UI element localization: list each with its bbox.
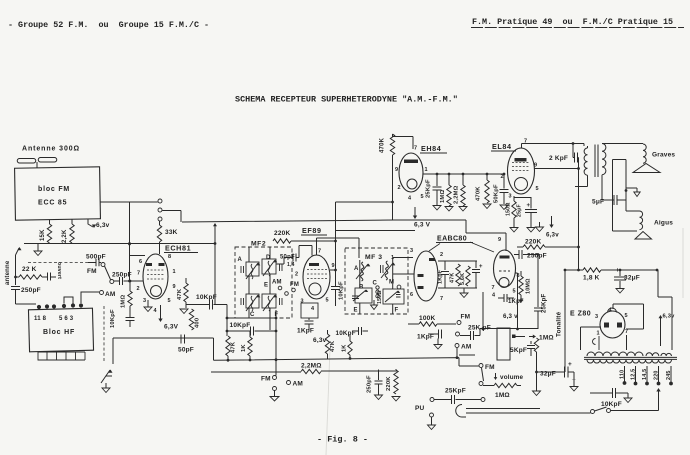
resistor 220K screen xyxy=(273,239,291,243)
svg-text:8: 8 xyxy=(517,273,520,279)
svg-text:2: 2 xyxy=(137,286,140,292)
svg-text:FM: FM xyxy=(87,268,97,275)
svg-text:11 8: 11 8 xyxy=(34,316,47,322)
wire avc upper xyxy=(227,317,276,319)
svg-text:PU: PU xyxy=(415,405,425,412)
svg-text:6: 6 xyxy=(410,292,413,298)
svg-text:9: 9 xyxy=(395,167,398,173)
svg-text:3: 3 xyxy=(143,298,146,304)
wire tweeter vertical xyxy=(613,160,638,232)
svg-text:220: 220 xyxy=(654,370,660,380)
resistor 22K xyxy=(19,275,42,279)
svg-text:6,3V: 6,3V xyxy=(164,324,179,331)
svg-text:10MΩ: 10MΩ xyxy=(526,278,532,294)
capacitor 50pF mf2 xyxy=(293,254,296,262)
wire MF2 to EF89 grid xyxy=(276,258,293,265)
mains tap 245 xyxy=(670,366,672,382)
wire HT right vertical xyxy=(658,270,672,350)
capacitor 250pF antenna series xyxy=(15,255,17,285)
svg-text:C: C xyxy=(250,312,255,318)
capacitor 25KpF em84 xyxy=(436,174,438,186)
resistor 2,2K xyxy=(70,224,74,243)
tube EL84 anode xyxy=(515,158,527,162)
svg-text:1MΩ: 1MΩ xyxy=(495,392,510,399)
svg-text:6,3v: 6,3v xyxy=(546,232,559,239)
capacitor 5KpF xyxy=(530,341,532,344)
svg-text:220K: 220K xyxy=(386,376,392,391)
svg-text:1K: 1K xyxy=(342,344,348,352)
ground 250pF det xyxy=(375,395,383,400)
svg-text:1: 1 xyxy=(597,331,600,337)
bloc FM box xyxy=(15,167,101,220)
svg-text:3: 3 xyxy=(410,248,413,254)
svg-text:1KpF: 1KpF xyxy=(438,269,444,284)
capacitor 5uF xyxy=(602,199,614,201)
MF3 shield box dashed xyxy=(345,248,408,314)
svg-text:5μF: 5μF xyxy=(592,199,604,206)
svg-text:10KpF: 10KpF xyxy=(339,281,345,300)
switch link dashed xyxy=(28,262,96,264)
tube EL84 envelope xyxy=(508,148,535,194)
ground bloc FM xyxy=(37,244,39,251)
junction anode rail xyxy=(128,242,131,245)
resistor 470K af xyxy=(485,180,489,203)
svg-text:F: F xyxy=(395,308,399,314)
svg-text:400: 400 xyxy=(195,318,201,328)
switch contact FM det2 xyxy=(456,332,460,336)
wire EL84 screen xyxy=(535,168,579,170)
mains switch xyxy=(591,410,595,414)
ground 1KpF af xyxy=(434,345,442,350)
svg-text:SCHEMA RECEPTEUR SUPERHETERODY: SCHEMA RECEPTEUR SUPERHETERODYNE "A.M.-F… xyxy=(235,95,458,105)
wire volume top xyxy=(480,328,538,330)
svg-text:32μF: 32μF xyxy=(624,275,640,282)
svg-text:10KpF: 10KpF xyxy=(110,309,116,328)
svg-text:1: 1 xyxy=(425,167,428,173)
svg-text:FM: FM xyxy=(485,364,495,371)
svg-text:9: 9 xyxy=(332,263,335,269)
svg-text:250pF: 250pF xyxy=(527,253,547,260)
resistor 100K xyxy=(408,323,419,325)
tube EABC80 diode envelope xyxy=(414,251,438,301)
MF2 top coil squiggles xyxy=(251,264,253,279)
wire screen feed vertical xyxy=(336,202,393,241)
switch contact top xyxy=(158,199,162,203)
svg-text:D: D xyxy=(266,255,271,261)
capacitor 10KpF mains xyxy=(590,392,612,394)
svg-text:6,3v: 6,3v xyxy=(663,314,676,320)
svg-text:6,3v: 6,3v xyxy=(313,337,327,344)
svg-text:1KpF: 1KpF xyxy=(417,334,434,341)
potentiometer volume 1Mohm xyxy=(483,385,494,387)
wire HT bus upper xyxy=(182,220,506,251)
ground EL84 third xyxy=(539,222,541,227)
svg-text:1,8 K: 1,8 K xyxy=(583,275,600,282)
svg-text:50pF: 50pF xyxy=(280,255,295,261)
capacitor antenna bypass xyxy=(42,276,47,278)
svg-text:2 KpF: 2 KpF xyxy=(549,155,568,162)
tube EZ80 envelope xyxy=(600,311,625,338)
svg-text:A: A xyxy=(238,257,243,263)
MF3 right cap xyxy=(396,295,401,298)
switch contact AM mid xyxy=(278,286,282,290)
svg-text:9: 9 xyxy=(173,284,176,290)
svg-text:E: E xyxy=(264,283,268,289)
svg-text:AM: AM xyxy=(105,291,116,298)
svg-text:FM: FM xyxy=(290,282,299,288)
svg-text:_: _ xyxy=(571,374,576,381)
svg-text:3: 3 xyxy=(509,194,512,200)
wire EH84 left xyxy=(392,155,394,220)
svg-text:245: 245 xyxy=(666,370,672,380)
svg-text:50pF: 50pF xyxy=(178,347,194,354)
wire EL84 plate xyxy=(522,144,585,149)
svg-text:25KpF: 25KpF xyxy=(426,179,432,198)
capacitor 2KpF xyxy=(573,144,574,158)
speaker Graves coil xyxy=(643,144,646,163)
svg-text:ECC 85: ECC 85 xyxy=(38,200,67,207)
svg-text:10KpF: 10KpF xyxy=(230,322,251,329)
svg-text:150Ω: 150Ω xyxy=(506,202,512,216)
ground 470K af xyxy=(483,204,491,209)
svg-text:10KpF: 10KpF xyxy=(336,330,356,337)
wire ground bus B xyxy=(211,371,397,372)
svg-text:5 6 3: 5 6 3 xyxy=(59,316,74,322)
svg-text:7: 7 xyxy=(625,329,628,335)
svg-text:250pF: 250pF xyxy=(21,287,41,294)
capacitor 500pF xyxy=(88,262,96,264)
power transformer secondary LT xyxy=(646,353,659,356)
ground 25KpF em84 xyxy=(433,206,441,211)
MF3 contact circle xyxy=(397,285,401,289)
capacitor 1KpF det xyxy=(444,261,446,270)
svg-text:7: 7 xyxy=(440,296,443,302)
capacitor 250pF fb xyxy=(514,254,519,256)
svg-text:ouvert: ouvert xyxy=(56,262,62,279)
wire if right vertical xyxy=(226,305,228,337)
svg-text:1,4: 1,4 xyxy=(287,262,295,268)
MF2 top slug arrows xyxy=(246,263,258,279)
svg-text:MF2: MF2 xyxy=(251,241,266,248)
svg-text:9: 9 xyxy=(534,163,537,169)
wire switch to bus xyxy=(162,211,181,223)
MF3 left cap xyxy=(352,296,359,299)
Bloc HF terminals xyxy=(37,305,41,309)
svg-text:25K pF: 25K pF xyxy=(468,325,491,332)
resistor 1Mohm grid xyxy=(128,291,132,306)
tube EABC80 triode grid xyxy=(499,270,510,272)
tube EF89 cathode xyxy=(309,283,321,295)
svg-text:50KpF: 50KpF xyxy=(494,184,500,203)
power transformer secondary LT2 xyxy=(661,353,671,356)
svg-text:47K: 47K xyxy=(330,340,336,352)
wire heater bloc FM xyxy=(88,220,93,228)
resistor 10Mohm xyxy=(519,276,523,295)
tube ECH81 anodes xyxy=(146,263,152,266)
svg-text:470K: 470K xyxy=(380,137,386,153)
svg-text:110: 110 xyxy=(620,370,626,379)
svg-text:14,5: 14,5 xyxy=(642,369,648,380)
svg-text:10KpF: 10KpF xyxy=(196,294,217,301)
capacitor padder xyxy=(126,318,135,321)
wire det cathode bottom xyxy=(438,287,477,289)
MF3 coil primary xyxy=(361,262,364,281)
ground 25uF xyxy=(527,228,535,233)
EF89 cathode box xyxy=(301,303,318,318)
switch contact mid xyxy=(158,208,162,212)
switch FM bottom xyxy=(273,376,277,380)
svg-text:6: 6 xyxy=(139,259,142,265)
resistor 33K xyxy=(157,225,161,242)
switch contact PU xyxy=(430,413,434,417)
svg-text:2: 2 xyxy=(501,174,504,180)
svg-text:EH84: EH84 xyxy=(421,144,441,153)
tube EZ80 plates xyxy=(604,323,609,328)
svg-text:2,2MΩ: 2,2MΩ xyxy=(301,363,322,370)
wire bloc HF pin stub xyxy=(64,297,73,304)
capacitor 50pF osc xyxy=(181,335,185,344)
svg-text:33K: 33K xyxy=(165,229,178,236)
svg-text:25KpF: 25KpF xyxy=(445,388,466,395)
MF3 vertical left xyxy=(359,260,361,314)
svg-text:6,3 V: 6,3 V xyxy=(414,222,431,229)
svg-text:FM: FM xyxy=(461,314,471,321)
svg-text:2,2K: 2,2K xyxy=(62,229,68,243)
svg-text:5: 5 xyxy=(513,289,516,295)
output transformer core xyxy=(595,145,598,178)
capacitor 1KpF af xyxy=(428,333,438,335)
wire EZ80 pin7 down xyxy=(626,335,628,350)
ground PU xyxy=(431,417,433,425)
capacitor 32uF psu xyxy=(619,270,621,276)
potentiometer tone 1Mohm xyxy=(533,335,536,339)
resistor 5,6K det xyxy=(466,266,470,286)
capacitor 1KpF ef89 xyxy=(308,318,310,320)
svg-text:5: 5 xyxy=(168,298,171,304)
tube EABC80 diode plates xyxy=(429,258,435,261)
svg-text:M: M xyxy=(389,280,394,286)
svg-text:250pF: 250pF xyxy=(367,375,373,393)
svg-text:12,5: 12,5 xyxy=(631,369,637,380)
wire bloc FM output xyxy=(100,202,145,281)
wire heater ECH81 xyxy=(160,305,162,320)
switch contact AM xyxy=(100,291,104,295)
svg-text:47K: 47K xyxy=(231,341,237,353)
svg-text:volume: volume xyxy=(500,374,524,381)
tube EABC80 triode envelope xyxy=(494,250,516,287)
svg-text:22 K: 22 K xyxy=(22,266,37,273)
wire MF3 to diode top xyxy=(393,257,413,259)
junction bus dots xyxy=(227,359,230,362)
svg-text:1KpF: 1KpF xyxy=(508,299,524,305)
svg-text:6,3 v: 6,3 v xyxy=(503,313,518,320)
svg-text:7: 7 xyxy=(137,271,140,277)
wire heater EH84 xyxy=(414,207,416,217)
MF2 bottom slug arrows xyxy=(246,295,258,311)
wire det cathode top xyxy=(438,260,477,262)
svg-text:EL84: EL84 xyxy=(492,142,512,151)
tube EL84 cathode xyxy=(515,178,528,191)
trimmer arrow xyxy=(101,370,110,383)
speaker Aigus cone xyxy=(635,232,652,240)
svg-text:2: 2 xyxy=(398,185,401,191)
tube EF89 envelope xyxy=(303,255,330,299)
svg-text:bloc FM: bloc FM xyxy=(38,186,70,193)
svg-text:AM: AM xyxy=(293,381,304,388)
svg-text:2,2MΩ: 2,2MΩ xyxy=(454,185,460,204)
capacitor 10KpF if xyxy=(186,304,209,306)
antenna dipole xyxy=(17,157,57,163)
resistor 47K agc xyxy=(226,336,230,356)
MF2 bottom caps xyxy=(241,298,282,305)
svg-text:1MΩ: 1MΩ xyxy=(539,335,554,342)
switch contact AM det xyxy=(455,344,459,348)
svg-text:E Z80: E Z80 xyxy=(570,311,591,318)
tube EH84 envelope xyxy=(399,153,423,192)
resistor 220K anode xyxy=(517,246,523,248)
power transformer core xyxy=(584,357,677,359)
ground 47K osc xyxy=(180,309,188,314)
wire bloc HF right xyxy=(113,338,214,364)
wire AVC vertical xyxy=(275,310,277,376)
svg-text:15K: 15K xyxy=(40,229,46,241)
tube ECH81 envelope xyxy=(143,254,168,299)
wire to switch contacts xyxy=(130,201,158,203)
ground Graves xyxy=(626,188,637,192)
svg-text:Graves: Graves xyxy=(652,152,675,159)
capacitor 250pF det xyxy=(378,370,380,381)
svg-text:7: 7 xyxy=(414,146,417,152)
ground 1Mohm em84 xyxy=(445,207,453,212)
MF2 shield box dashed xyxy=(235,247,292,318)
svg-text:AM: AM xyxy=(272,280,282,286)
resistor 220K det xyxy=(394,370,398,394)
antenna input arrow xyxy=(16,248,20,255)
svg-text:5: 5 xyxy=(536,186,539,192)
svg-text:150Ω: 150Ω xyxy=(377,290,383,304)
mains tap 145 xyxy=(646,366,648,382)
wire EH84 grid line xyxy=(423,173,505,175)
capacitor 25KpF pu xyxy=(430,398,434,402)
svg-text:5: 5 xyxy=(625,313,628,319)
svg-text:AM: AM xyxy=(461,344,472,351)
wire triode plate down xyxy=(516,273,518,329)
Bloc HF box xyxy=(28,308,93,352)
capacitor 10KpF avc xyxy=(227,330,250,332)
svg-text:1K: 1K xyxy=(241,344,247,352)
tube ECH81 grids xyxy=(147,270,164,279)
ground 50KpF xyxy=(500,205,508,210)
switch contact FM mid xyxy=(292,288,296,292)
svg-text:2: 2 xyxy=(295,272,298,278)
wire EZ80 plate bracket xyxy=(613,304,644,329)
capacitor 10KpF af2 xyxy=(352,330,358,332)
switch contact FM det xyxy=(457,321,461,325)
capacitor 25KpF det xyxy=(460,335,470,337)
MF3 vertical right xyxy=(392,258,394,314)
resistor 470K em84 xyxy=(390,134,394,155)
switch AM bottom xyxy=(287,381,291,385)
svg-text:1: 1 xyxy=(173,269,176,275)
svg-text:C: C xyxy=(373,281,378,287)
resistor 15K xyxy=(47,224,51,243)
resistor 2,2Mohm em84 xyxy=(461,185,465,206)
capacitor 32uF af xyxy=(537,371,565,373)
svg-text:1MΩ: 1MΩ xyxy=(121,295,127,308)
resistor 47K det xyxy=(456,264,460,286)
tube EABC80 triode anode xyxy=(500,256,510,259)
capacitor 1KpF triode xyxy=(498,297,504,299)
svg-text:6,3v: 6,3v xyxy=(96,222,110,229)
switch FM af xyxy=(479,364,483,368)
svg-text:+: + xyxy=(479,264,483,270)
svg-text:7: 7 xyxy=(318,249,321,255)
svg-text:1KpF: 1KpF xyxy=(297,328,314,335)
svg-text:Tonalité: Tonalité xyxy=(556,311,563,337)
svg-text:47K: 47K xyxy=(450,273,456,284)
switch contact 250pF xyxy=(110,280,114,284)
mains tap 125 xyxy=(635,366,637,382)
MF2 vertical through left xyxy=(248,247,250,318)
svg-text:250pF: 250pF xyxy=(112,272,132,279)
svg-text:antenne: antenne xyxy=(5,260,11,285)
svg-text:+: + xyxy=(527,203,531,209)
tube EF89 grids xyxy=(307,270,327,279)
volume pot box xyxy=(497,328,510,360)
output transformer primary xyxy=(584,148,587,175)
tube EH84 screen xyxy=(404,160,418,164)
scan artifact line 1 xyxy=(326,348,330,455)
Bloc HF bottom tabs xyxy=(38,352,85,360)
svg-text:1MΩ: 1MΩ xyxy=(440,190,446,203)
wire if vertical xyxy=(214,244,216,305)
svg-text:- Fig. 8 -: - Fig. 8 - xyxy=(317,435,368,445)
capacitor 25uF cathode xyxy=(530,197,532,209)
wire EABC80 label pointers xyxy=(429,242,494,252)
svg-text:5: 5 xyxy=(421,194,424,200)
svg-text:25μF: 25μF xyxy=(517,204,523,217)
speaker Aigus coil xyxy=(626,210,640,212)
wire EF89 plate xyxy=(317,238,360,258)
header right underline xyxy=(471,27,684,29)
resistor 1K af2 xyxy=(348,341,352,355)
svg-text:5KpF: 5KpF xyxy=(510,347,527,354)
svg-text:Bloc HF: Bloc HF xyxy=(43,329,75,336)
mains tap 110 xyxy=(624,366,626,382)
svg-text:47K: 47K xyxy=(177,288,183,300)
wire mains switch right xyxy=(611,390,659,411)
svg-text:220K: 220K xyxy=(525,239,541,246)
MF3 top cap xyxy=(381,265,384,273)
svg-text:Aigus: Aigus xyxy=(654,220,673,227)
MF2 vertical through right xyxy=(269,247,271,330)
capacitor electrolytic det xyxy=(475,261,477,268)
ground 32uF af xyxy=(570,387,578,392)
ground 32uF psu xyxy=(616,289,624,294)
MF2 top caps xyxy=(241,264,282,273)
svg-text:+: + xyxy=(616,267,620,274)
scan artifact line 2 xyxy=(682,228,684,298)
capacitor 250pF grid xyxy=(114,280,119,282)
resistor 1K agc xyxy=(248,337,252,356)
mains tap 220 xyxy=(658,366,660,382)
wire bloc HF to AM contact xyxy=(81,292,99,303)
wire EF89 B+ branch xyxy=(336,231,416,287)
svg-text:EABC80: EABC80 xyxy=(437,236,467,243)
MF3 ground xyxy=(373,300,375,305)
power transformer primary xyxy=(587,360,672,363)
capacitor 50KpF xyxy=(503,174,505,189)
